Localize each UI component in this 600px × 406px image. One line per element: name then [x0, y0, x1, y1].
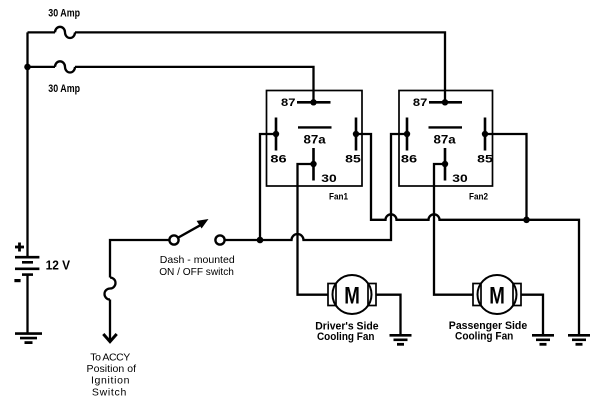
- motor M2 left brush terminal: [473, 284, 481, 306]
- wire relay2 pin 30 to motor2: [434, 164, 473, 295]
- svg-text:Cooling Fan: Cooling Fan: [455, 331, 513, 343]
- relay U2 box: [399, 91, 493, 187]
- relay U2 pin 85 bar: [484, 118, 487, 151]
- svg-text:30 Amp: 30 Amp: [48, 7, 80, 19]
- ground (motor2): [532, 335, 554, 344]
- svg-text:M: M: [489, 282, 505, 309]
- relay U1 pin 30 dot: [310, 161, 316, 167]
- svg-text:86: 86: [401, 154, 417, 166]
- ground (relay coils): [568, 335, 590, 344]
- ground (battery): [15, 334, 42, 343]
- svg-text:30 Amp: 30 Amp: [48, 83, 80, 95]
- relay U2 pin 87 bar: [429, 101, 462, 104]
- svg-text:87a: 87a: [434, 134, 457, 146]
- svg-text:30: 30: [321, 173, 336, 185]
- switch SW1 right terminal: [215, 235, 224, 244]
- battery 12V plus sign: [15, 243, 24, 252]
- relay U2 pin 87 dot: [442, 99, 448, 105]
- wire second feed left segment: [28, 66, 56, 68]
- relay U2 pin 86 bar: [406, 118, 409, 151]
- coiled wire symbol on ignition feed: [105, 278, 116, 300]
- wire fuse F1 to relay2 pin 87: [75, 32, 445, 102]
- svg-text:To ACCY: To ACCY: [90, 352, 130, 364]
- wire motor2 to ground: [521, 295, 543, 334]
- svg-text:Position of: Position of: [87, 363, 137, 375]
- wire motor1 to ground: [376, 295, 401, 334]
- relay U1 87a contact bar: [298, 126, 332, 128]
- battery 12V plates: [15, 257, 39, 274]
- junction dot switch wire / relay1 86 branch: [257, 237, 264, 244]
- junction dot relay2 85 / ground rail: [523, 217, 530, 224]
- relay U1 pin 86 bar: [275, 118, 278, 151]
- motor M2 right brush terminal: [513, 284, 521, 306]
- wire relay1 pin 85 to ground rail (hops over relay2 86 wire and relay2 30 wire): [356, 134, 579, 334]
- label Passenger Side Cooling Fan: [449, 320, 527, 343]
- wire junction to relay1 pin 86: [260, 134, 276, 240]
- wire relay1 pin 30 to motor1: [298, 164, 329, 295]
- wire coiled symbol to arrow: [109, 300, 111, 341]
- arrowhead to ACCY: [103, 334, 116, 342]
- wire battery positive rail: [26, 32, 28, 256]
- junction dot battery rail / fuse F2: [24, 64, 31, 71]
- svg-text:85: 85: [477, 154, 493, 166]
- svg-text:Cooling Fan: Cooling Fan: [317, 331, 375, 343]
- wire top feed left segment: [28, 31, 56, 33]
- svg-text:87: 87: [281, 97, 295, 109]
- wire ignition feed: switch left terminal to ACCY arrow: [110, 240, 170, 278]
- svg-text:30: 30: [452, 173, 467, 185]
- switch SW1 arm with arrowhead: [178, 225, 202, 238]
- label Driver's Side Cooling Fan: [315, 321, 378, 343]
- svg-text:86: 86: [270, 154, 286, 166]
- fuse F2 30 Amp: [55, 61, 75, 72]
- svg-text:ON / OFF switch: ON / OFF switch: [159, 266, 234, 278]
- motor M1 body: [333, 275, 372, 314]
- svg-text:87a: 87a: [304, 134, 327, 146]
- relay U1 pin 87 bar: [297, 101, 331, 104]
- relay U2 pin 86 dot: [404, 131, 410, 137]
- relay U2 pin 85 dot: [482, 131, 488, 137]
- wire switch right terminal to relay2 pin 86 (hop over relay1 30 wire): [225, 134, 408, 240]
- svg-text:12 V: 12 V: [46, 258, 71, 273]
- svg-text:Dash - mounted: Dash - mounted: [160, 254, 235, 266]
- svg-text:Switch: Switch: [92, 386, 127, 398]
- relay U2 pin 30 bar: [444, 148, 447, 181]
- switch SW1 left terminal: [169, 235, 178, 244]
- wire fuse F2 to relay1 pin 87: [75, 67, 314, 102]
- motor M1 left brush terminal: [328, 284, 336, 306]
- relay U2 87a contact bar: [429, 126, 463, 128]
- ground (motor1): [390, 335, 412, 344]
- svg-text:Fan1: Fan1: [329, 191, 348, 201]
- relay U1 pin 87 dot: [310, 99, 316, 105]
- label Dash - mounted ON / OFF switch: [159, 254, 235, 278]
- motor M1 right brush terminal: [368, 284, 376, 306]
- relay U1 pin 85 dot: [353, 131, 359, 137]
- relay U1 pin 85 bar: [355, 118, 358, 151]
- svg-text:85: 85: [345, 154, 361, 166]
- battery 12V minus sign: [14, 279, 20, 282]
- svg-text:Ignition: Ignition: [91, 375, 130, 387]
- fuse F1 30 Amp: [55, 27, 75, 38]
- relay U1 box: [267, 91, 363, 187]
- label To ACCY Position of Ignition Switch: [87, 352, 137, 399]
- motor M2 body: [478, 275, 517, 314]
- svg-text:M: M: [344, 282, 360, 309]
- relay U1 pin 30 bar: [312, 148, 315, 181]
- wire battery negative to ground: [26, 275, 28, 333]
- svg-text:87: 87: [413, 97, 427, 109]
- wire relay2 pin 85 down to ground rail junction: [485, 134, 527, 220]
- svg-text:Fan2: Fan2: [469, 191, 488, 201]
- relay U1 pin 86 dot: [273, 131, 279, 137]
- relay U2 pin 30 dot: [442, 161, 448, 167]
